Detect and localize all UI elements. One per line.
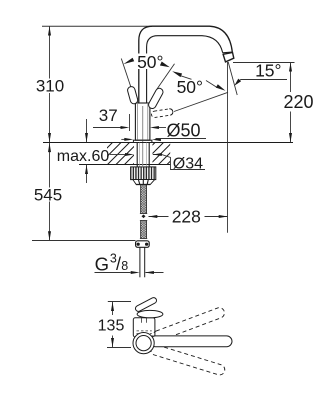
deck hatching right: [153, 143, 171, 164]
dimension 310 top extension line: [42, 25, 152, 27]
water stream vertical line: [227, 62, 229, 233]
dashed lever axis extension: [174, 92, 228, 111]
svg-text:15°: 15°: [255, 61, 281, 81]
dimension max.60 upper arrow: [86, 119, 88, 142]
svg-text:max.60: max.60: [57, 148, 110, 165]
body centre axis: [142, 106, 144, 166]
dimension 135 bottom tick: [107, 347, 131, 349]
svg-text:545: 545: [34, 185, 62, 204]
supply pipe: [139, 247, 141, 277]
svg-text:Ø34: Ø34: [173, 155, 203, 172]
lever handle up position: [127, 86, 139, 105]
deck bottom line: [79, 164, 171, 166]
label 50 first backing: [136, 54, 166, 70]
svg-text:37: 37: [99, 106, 118, 125]
svg-text:Ø50: Ø50: [167, 121, 201, 141]
lever handle tilted 50 position: [147, 87, 164, 110]
svg-text:50°: 50°: [177, 77, 203, 97]
spout aerator seam: [223, 51, 233, 54]
svg-text:135: 135: [98, 317, 125, 334]
deck top line: [43, 142, 293, 144]
flexible hose upper part: [141, 185, 147, 214]
D50 lower arrows: [121, 138, 126, 140]
mounting nut: [131, 167, 156, 180]
nut collar: [133, 180, 155, 185]
max.60 leader arrow: [110, 154, 126, 156]
plan spout arm lower dashed: [149, 344, 226, 377]
plan lever shaft lines: [141, 318, 143, 323]
hose break mark: [142, 215, 146, 219]
arc2 right tail and arrowhead: [206, 81, 217, 88]
base flange: [133, 140, 152, 142]
dimension max.60 lower arrow: [86, 165, 88, 183]
plan swivel pivot ring: [133, 333, 154, 354]
svg-text:220: 220: [283, 92, 313, 112]
dimension 135 vertical line: [112, 302, 114, 315]
lever up axis line: [121, 59, 131, 89]
plan body hidden lines: [137, 330, 152, 332]
plan spout arm upper dashed: [151, 306, 226, 342]
spout nozzle: [223, 52, 234, 62]
plan lever cap ellipse: [137, 310, 163, 317]
label D34 leader: [153, 155, 205, 170]
dimension 545 bottom tick: [32, 240, 136, 242]
hose end connector: [136, 241, 150, 248]
G3/8 leader underline and arrows: [95, 272, 131, 274]
dimension 220 top tick: [233, 62, 295, 64]
lever handle dashed position: [151, 108, 173, 118]
deck hatching left: [107, 143, 134, 164]
flexible hose lower part: [141, 221, 147, 239]
plan lever: [134, 297, 157, 313]
svg-text:50°: 50°: [137, 52, 163, 72]
svg-text:8: 8: [121, 259, 128, 273]
faucet body: [135, 103, 150, 140]
37 extension line: [129, 114, 131, 131]
arc1 right arrowhead: [160, 62, 170, 68]
dimension 220 vertical line: [290, 63, 292, 93]
dimension 545 vertical line: [49, 143, 51, 188]
threaded shank through deck: [136, 143, 138, 167]
dimension 228: [149, 216, 169, 218]
lever tilted axis line: [157, 64, 175, 89]
svg-text:310: 310: [36, 77, 64, 96]
spout inner line: [147, 36, 223, 103]
svg-text:/: /: [116, 254, 121, 274]
spout riser and high arc spout outer: [139, 26, 233, 103]
dimension 135 top tick: [108, 301, 131, 303]
D50 upper arrow: [157, 127, 166, 129]
plan spout arm solid: [150, 336, 232, 347]
svg-text:228: 228: [172, 206, 201, 226]
svg-text:G: G: [95, 254, 109, 275]
15 leader: [241, 79, 288, 81]
arc1 left arrowhead: [123, 58, 134, 64]
plan body: [133, 318, 155, 337]
dimension 310 vertical line: [49, 26, 51, 78]
arc2 left arrowhead: [172, 71, 182, 77]
stream 15 degree slanted line: [228, 62, 237, 95]
